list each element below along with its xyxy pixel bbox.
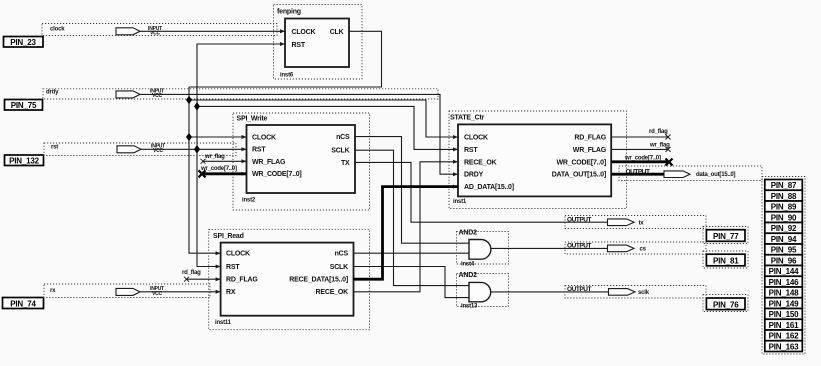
wire drdy net <box>140 94 458 174</box>
svg-text:PIN_96: PIN_96 <box>771 256 797 265</box>
output primitive sclk <box>565 286 706 299</box>
svg-text:inst6: inst6 <box>280 73 294 79</box>
svg-text:nCS: nCS <box>335 251 349 258</box>
input primitive rx <box>44 284 210 298</box>
junction CLK-STATE <box>186 96 192 105</box>
svg-text:SCLK: SCLK <box>331 148 349 155</box>
wire fenping RST lead <box>197 44 285 267</box>
svg-text:AD_DATA[15..0]: AD_DATA[15..0] <box>464 184 514 191</box>
wire rst to SPI_Write RST <box>141 148 247 150</box>
gate AND2 inst13 (sclk) <box>457 272 509 309</box>
output pin PIN_76 <box>703 295 748 312</box>
svg-text:PIN_94: PIN_94 <box>771 235 797 244</box>
svg-text:PIN_90: PIN_90 <box>771 213 797 222</box>
node wr_flag stub (SPI_Write) <box>201 154 247 164</box>
block SPI_Write <box>233 113 370 210</box>
wire AND2 inst4 output to OUTPUT cs <box>491 247 608 249</box>
svg-text:STATE_Ctr: STATE_Ctr <box>450 115 485 122</box>
block fenping (divider) <box>274 5 363 80</box>
svg-text:rd_flag: rd_flag <box>649 129 668 135</box>
svg-text:RST: RST <box>252 147 266 154</box>
svg-text:RECE_DATA[15..0]: RECE_DATA[15..0] <box>289 277 348 284</box>
wire STATE wr_code[7..0] output (bus) <box>611 156 672 166</box>
svg-text:nCS: nCS <box>336 134 350 141</box>
svg-text:CLOCK: CLOCK <box>292 29 316 36</box>
svg-text:CLOCK: CLOCK <box>226 251 250 258</box>
wire CLK vertical main <box>189 87 221 253</box>
svg-text:PIN_92: PIN_92 <box>771 224 797 233</box>
svg-text:RECE_OK: RECE_OK <box>464 159 497 166</box>
svg-text:CLOCK: CLOCK <box>464 135 488 142</box>
svg-text:PIN_76: PIN_76 <box>713 300 739 309</box>
input pin PIN_75 <box>5 100 43 111</box>
wire rst branch to STATE_Ctr RST <box>197 106 458 149</box>
svg-text:PIN_163: PIN_163 <box>769 342 799 351</box>
svg-text:sclk: sclk <box>638 290 650 296</box>
wire SPI_Write SCLK to AND2 inst13 input1 <box>355 150 469 285</box>
svg-text:inst1: inst1 <box>453 199 467 205</box>
gate AND2 inst4 (cs) <box>457 229 509 267</box>
svg-text:tx: tx <box>639 221 645 227</box>
input pin PIN_132 <box>5 155 44 166</box>
svg-text:SCLK: SCLK <box>330 264 348 271</box>
wire SPI_Read RECE_OK to STATE RECE_OK <box>354 162 459 292</box>
block SPI_Read <box>209 229 370 329</box>
svg-text:rx: rx <box>50 288 56 294</box>
output primitive tx <box>565 216 706 229</box>
wire SPI_Read RECE_DATA bus to STATE AD_DATA (bold) <box>354 187 459 280</box>
svg-text:PIN_74: PIN_74 <box>10 300 36 309</box>
svg-text:inst2: inst2 <box>242 197 256 203</box>
block STATE_Ctr <box>449 111 627 209</box>
arrowhead fenping CLOCK <box>280 29 285 33</box>
output pin PIN_77 <box>703 227 748 244</box>
svg-text:drdy: drdy <box>46 90 59 96</box>
svg-text:PIN_77: PIN_77 <box>713 232 739 241</box>
svg-text:CLOCK: CLOCK <box>252 135 276 142</box>
svg-text:fenping: fenping <box>277 9 301 16</box>
svg-text:PIN_89: PIN_89 <box>771 203 797 212</box>
svg-text:wr_flag: wr_flag <box>204 154 225 160</box>
svg-text:WR_CODE[7..0]: WR_CODE[7..0] <box>252 171 302 178</box>
svg-text:wr_code[7..0]: wr_code[7..0] <box>624 156 661 162</box>
arrowheads STATE_Ctr inputs <box>453 135 458 139</box>
output pin PIN_81 <box>703 251 748 268</box>
svg-text:wr_flag: wr_flag <box>649 143 670 149</box>
junction rst-STATE <box>194 102 200 111</box>
svg-text:DATA_OUT[15..0]: DATA_OUT[15..0] <box>552 172 606 179</box>
svg-text:PIN_149: PIN_149 <box>769 299 799 308</box>
wire SPI_Write nCS to AND2 inst4 input1 <box>355 137 469 244</box>
svg-text:RD_FLAG: RD_FLAG <box>226 277 258 284</box>
svg-text:PIN_75: PIN_75 <box>11 101 37 110</box>
svg-text:RST: RST <box>226 264 240 271</box>
svg-text:RX: RX <box>226 289 236 296</box>
wire SPI_Read SCLK to AND2 inst13 input2 <box>354 267 470 298</box>
wire rx to SPI_Read RX <box>140 291 221 293</box>
svg-text:CLK: CLK <box>330 29 344 36</box>
wire STATE wr_flag output <box>611 143 670 152</box>
svg-text:inst4: inst4 <box>461 262 475 268</box>
output pin column PIN_87..PIN_163 <box>762 177 805 355</box>
svg-text:PIN_148: PIN_148 <box>769 289 799 298</box>
svg-text:wr_code[7..0]: wr_code[7..0] <box>200 166 237 172</box>
arrowheads SPI_Read inputs <box>216 251 221 255</box>
svg-text:SPI_Read: SPI_Read <box>213 233 244 240</box>
svg-text:PIN_88: PIN_88 <box>771 192 797 201</box>
input primitive rst <box>44 143 236 156</box>
svg-text:rd_flag: rd_flag <box>182 270 201 276</box>
svg-text:data_out[15..0]: data_out[15..0] <box>696 172 736 178</box>
svg-text:DRDY: DRDY <box>464 172 484 179</box>
wire AND2 inst13 output to OUTPUT sclk <box>491 291 609 293</box>
input primitive clock <box>42 24 277 37</box>
output primitive cs <box>565 242 706 254</box>
svg-text:OUTPUT: OUTPUT <box>567 216 592 223</box>
svg-text:AND2: AND2 <box>459 272 478 279</box>
svg-text:RECE_OK: RECE_OK <box>316 289 349 296</box>
wire fenping CLK output down-left <box>189 31 382 87</box>
arrowhead fenping RST <box>280 42 285 46</box>
svg-text:RST: RST <box>292 42 306 49</box>
junction rst-wire <box>194 145 200 154</box>
svg-text:clock: clock <box>50 27 65 33</box>
svg-text:inst13: inst13 <box>461 304 478 310</box>
svg-text:rst: rst <box>51 145 58 151</box>
svg-text:PIN_162: PIN_162 <box>769 332 799 341</box>
node rd_flag stub (SPI_Read) <box>182 270 221 282</box>
svg-text:PIN_161: PIN_161 <box>769 321 799 330</box>
svg-text:OUTPUT: OUTPUT <box>567 243 592 250</box>
svg-text:OUTPUT: OUTPUT <box>626 168 651 175</box>
arrowheads SPI_Write inputs <box>242 135 247 139</box>
svg-text:OUTPUT: OUTPUT <box>567 286 592 293</box>
wire CLK branch to STATE_Ctr CLOCK <box>189 100 458 137</box>
output primitive data_out[15..0] (bus) <box>611 166 762 181</box>
input pin PIN_23 <box>4 37 44 48</box>
svg-text:PIN_23: PIN_23 <box>10 38 36 47</box>
svg-text:RD_FLAG: RD_FLAG <box>574 135 606 142</box>
svg-text:inst11: inst11 <box>215 320 232 326</box>
wire SPI_Write TX to OUTPUT tx <box>355 162 608 222</box>
svg-text:PIN_146: PIN_146 <box>769 278 799 287</box>
node wr_code[7..0] stub (SPI_Write, bus) <box>199 166 247 177</box>
svg-text:RST: RST <box>464 147 478 154</box>
input pin PIN_74 <box>3 298 44 309</box>
svg-text:PIN_132: PIN_132 <box>9 157 39 166</box>
wire clock to fenping CLOCK <box>140 30 285 32</box>
svg-text:PIN_150: PIN_150 <box>769 310 799 319</box>
svg-text:TX: TX <box>341 160 350 167</box>
wire SPI_Read nCS to AND2 inst4 input2 <box>354 252 470 254</box>
svg-text:AND2: AND2 <box>459 229 478 236</box>
svg-text:SPI_Write: SPI_Write <box>237 116 268 123</box>
svg-text:WR_FLAG: WR_FLAG <box>573 147 607 154</box>
wire STATE rd_flag output <box>611 129 670 140</box>
input primitive drdy <box>43 89 438 100</box>
svg-text:WR_CODE[7..0]: WR_CODE[7..0] <box>556 159 606 166</box>
svg-text:WR_FLAG: WR_FLAG <box>252 159 286 166</box>
junction CLK-SPIWrite <box>186 133 192 142</box>
svg-text:PIN_81: PIN_81 <box>713 257 739 266</box>
svg-text:PIN_87: PIN_87 <box>771 181 797 190</box>
wire CLK branch to SPI_Write CLOCK <box>189 136 247 138</box>
svg-text:PIN_144: PIN_144 <box>769 267 799 276</box>
svg-text:cs: cs <box>640 247 647 253</box>
svg-text:PIN_95: PIN_95 <box>771 246 797 255</box>
